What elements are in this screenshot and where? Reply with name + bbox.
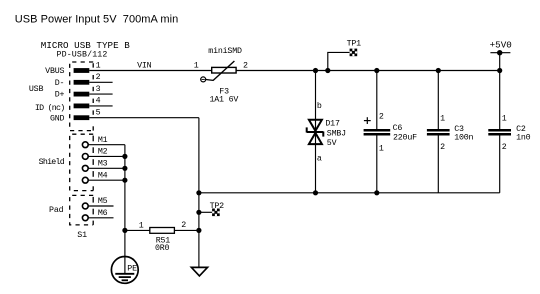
svg-text:TP1: TP1: [347, 39, 362, 48]
fuse F3 body: [201, 61, 236, 82]
capacitor C2 bottom pin wire: [499, 135, 501, 192]
wire shield to PE: [124, 230, 126, 273]
svg-text:1: 1: [502, 115, 507, 124]
svg-text:MICRO USB TYPE B: MICRO USB TYPE B: [41, 40, 130, 51]
TVS diode D17 symbol: [307, 120, 324, 144]
svg-text:2: 2: [181, 221, 186, 230]
svg-text:S1: S1: [77, 231, 87, 240]
M pin circle M5: [82, 203, 88, 209]
capacitor C2 top pin wire: [499, 71, 501, 130]
svg-text:3: 3: [96, 85, 101, 94]
wire TP2 stub: [199, 211, 213, 213]
M pin circle M6: [82, 215, 88, 221]
wire VIN from pin1 to fuse: [89, 70, 211, 72]
svg-text:D+: D+: [55, 91, 65, 100]
svg-text:2: 2: [379, 113, 384, 122]
svg-text:2: 2: [96, 73, 101, 82]
svg-text:1: 1: [379, 144, 384, 153]
svg-text:USB: USB: [29, 85, 44, 94]
svg-text:VBUS: VBUS: [45, 67, 64, 76]
TVS diode D17 top pin wire (b): [315, 71, 317, 132]
junction dot M4: [122, 178, 127, 183]
junction dot VIN/D17: [313, 68, 318, 73]
wire ground bus bottom: [199, 192, 500, 194]
capacitor C2 plates: [488, 130, 511, 134]
junction dot R51 pin1 node: [122, 228, 127, 233]
svg-text:220uF: 220uF: [393, 133, 417, 142]
earth symbol PE: [111, 257, 138, 284]
svg-text:+5V0: +5V0: [490, 39, 512, 50]
wire GND vertical down: [198, 118, 200, 193]
wire R51 left: [125, 229, 150, 231]
svg-text:1: 1: [194, 61, 199, 70]
svg-text:VIN: VIN: [137, 62, 152, 71]
svg-text:M5: M5: [98, 197, 108, 206]
wire M5 stub: [88, 205, 113, 207]
wire TP1 stub: [328, 52, 350, 70]
svg-text:C2: C2: [516, 125, 526, 134]
svg-text:2: 2: [440, 143, 445, 152]
junction dot C6 top: [374, 68, 379, 73]
pin 1 pad VBUS: [74, 68, 90, 73]
svg-text:Shield: Shield: [39, 157, 65, 167]
test point TP1 symbol: [350, 49, 358, 57]
wire M1: [88, 144, 125, 146]
svg-text:1: 1: [440, 115, 445, 124]
pin 5 pad GND: [74, 115, 90, 120]
svg-text:M1: M1: [98, 136, 108, 145]
svg-text:M6: M6: [98, 209, 108, 218]
wire shield vertical: [124, 145, 126, 231]
svg-text:D-: D-: [55, 79, 65, 88]
wire M2: [88, 155, 125, 157]
pin 4 pad ID: [74, 104, 90, 109]
capacitor C3 bottom pin wire: [437, 135, 439, 192]
M pin circle M3: [82, 165, 88, 171]
capacitor C6 top pin wire: [376, 71, 378, 130]
svg-text:M4: M4: [98, 171, 108, 180]
svg-text:PE: PE: [127, 264, 137, 273]
wire M6 stub: [88, 217, 113, 219]
pin 3 pad D+: [74, 92, 90, 97]
junction dot C3 top: [436, 68, 441, 73]
M pin circle M1: [82, 142, 88, 148]
svg-text:0R0: 0R0: [155, 244, 170, 253]
wire R51 right: [174, 229, 199, 231]
TVS diode D17 bottom pin wire (a): [315, 132, 317, 193]
junction dot TP1: [325, 68, 330, 73]
capacitor C6 bottom pin wire: [376, 135, 378, 192]
wire pin2 stub: [89, 81, 112, 83]
wire pin3 stub: [89, 93, 112, 95]
junction dot gnd bus left: [196, 190, 201, 195]
wire M4: [88, 179, 125, 181]
svg-text:2: 2: [243, 61, 248, 70]
svg-text:4: 4: [96, 97, 101, 106]
svg-text:PD-USB/112: PD-USB/112: [57, 49, 108, 59]
wire pin4 stub: [89, 105, 112, 107]
connector S1 body box bottom (pad pins M5-M6): [70, 195, 94, 225]
svg-text:a: a: [317, 154, 322, 163]
svg-text:D17: D17: [325, 119, 340, 128]
wire M3: [88, 167, 125, 169]
C6 polarity plus sign: [364, 117, 371, 124]
capacitor C3 plates: [427, 130, 450, 134]
connector S1 body box middle (shield pins M1-M4): [70, 134, 94, 190]
svg-text:5V: 5V: [327, 139, 337, 148]
test point TP2 symbol: [212, 209, 220, 217]
ground symbol triangle: [191, 267, 207, 276]
power symbol +5V0: [490, 50, 510, 71]
svg-text:GND: GND: [50, 114, 65, 123]
wire GND pin5 horizontal: [89, 117, 199, 119]
svg-text:5: 5: [96, 109, 101, 118]
svg-text:M2: M2: [98, 148, 108, 157]
wire +5V bus from fuse to right: [236, 70, 500, 72]
svg-text:SMBJ: SMBJ: [327, 130, 346, 139]
junction dot D17 bottom: [313, 190, 318, 195]
resistor R51 body: [150, 228, 175, 234]
junction dot C6 bottom: [374, 190, 379, 195]
svg-text:C6: C6: [393, 124, 403, 133]
capacitor C6 plates: [364, 130, 391, 134]
svg-text:100n: 100n: [454, 134, 473, 143]
svg-text:C3: C3: [454, 125, 464, 134]
junction dot R51 pin2 node: [196, 228, 201, 233]
connector S1 body box top (pins 1-5): [70, 62, 94, 131]
svg-text:ID (nc): ID (nc): [35, 103, 65, 113]
junction dot +5V0/C2: [497, 68, 502, 73]
junction dot TP2 node: [196, 210, 201, 215]
capacitor C3 top pin wire: [437, 71, 439, 130]
svg-text:1A1 6V: 1A1 6V: [210, 96, 239, 105]
svg-text:1: 1: [96, 61, 101, 70]
svg-text:b: b: [317, 101, 322, 111]
M pin circle M2: [82, 154, 88, 160]
svg-text:USB Power Input 5V 700mA min: USB Power Input 5V 700mA min: [15, 14, 178, 26]
svg-text:1: 1: [139, 221, 144, 230]
svg-text:2: 2: [502, 143, 507, 152]
pin 2 pad D-: [74, 80, 90, 85]
junction dot M2: [122, 154, 127, 159]
junction dot M3: [122, 166, 127, 171]
M pin circle M4: [82, 177, 88, 183]
wire ground stem to earth triangle: [198, 193, 200, 268]
svg-text:1n0: 1n0: [516, 134, 531, 143]
svg-text:Pad: Pad: [49, 205, 64, 215]
svg-text:miniSMD: miniSMD: [208, 46, 242, 56]
svg-text:M3: M3: [98, 159, 108, 168]
